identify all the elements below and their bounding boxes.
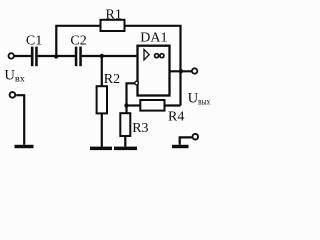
wire C2 to op-amp non-inverting input xyxy=(82,55,137,57)
capacitor C2 xyxy=(75,47,82,67)
ground bar (output) xyxy=(172,145,189,148)
wire R2 bottom to ground xyxy=(101,113,103,147)
output ground terminal circle xyxy=(193,134,199,140)
wire output ground terminal to ground xyxy=(180,137,192,144)
wire op-amp output to output terminal xyxy=(171,70,192,72)
wire input terminal to C1 xyxy=(14,55,31,57)
resistor R1 xyxy=(101,20,125,31)
ground bar (input) xyxy=(15,145,34,148)
svg-text:DA1: DA1 xyxy=(140,31,167,46)
node B junction dot xyxy=(100,54,104,58)
op-amp U1 (DA1) body xyxy=(138,46,170,96)
svg-text:R3: R3 xyxy=(132,121,148,136)
svg-text:R1: R1 xyxy=(106,7,122,22)
wire inverting node to R4 left end xyxy=(127,104,141,106)
op-amp infinity gain symbol xyxy=(155,54,164,58)
resistor R3 xyxy=(120,113,130,136)
output node junction dot xyxy=(179,69,183,73)
op-amp triangle symbol xyxy=(144,49,149,60)
op-amp inverting input circle xyxy=(135,81,139,85)
svg-text:R2: R2 xyxy=(104,72,120,87)
svg-text:C2: C2 xyxy=(70,33,86,48)
resistor R2 xyxy=(97,86,107,113)
wire feedback: node A up, across top, down to R4 right end xyxy=(56,26,180,106)
node A junction dot xyxy=(54,54,58,58)
svg-text:R4: R4 xyxy=(168,110,184,125)
svg-text:C1: C1 xyxy=(26,33,42,48)
wire node B down to R2 xyxy=(101,56,103,87)
input terminal circle (top) xyxy=(9,53,14,58)
input terminal circle (bottom) xyxy=(10,92,16,98)
wire R4 right end to feedback vertical xyxy=(164,104,180,106)
capacitor C1 xyxy=(31,47,38,67)
output terminal circle xyxy=(192,68,197,73)
wire inverting node up and to inverting input circle xyxy=(127,83,135,105)
wire inverting node down to R3 xyxy=(125,106,127,114)
wire lower input terminal to ground xyxy=(16,95,24,145)
ground bar (R2) xyxy=(90,147,112,151)
resistor R4 xyxy=(140,100,164,111)
wire C1 to C2 through node A xyxy=(38,55,76,57)
inverting node junction dot xyxy=(124,103,128,107)
wire R3 bottom to ground xyxy=(124,136,126,147)
ground bar (R3) xyxy=(114,147,137,151)
